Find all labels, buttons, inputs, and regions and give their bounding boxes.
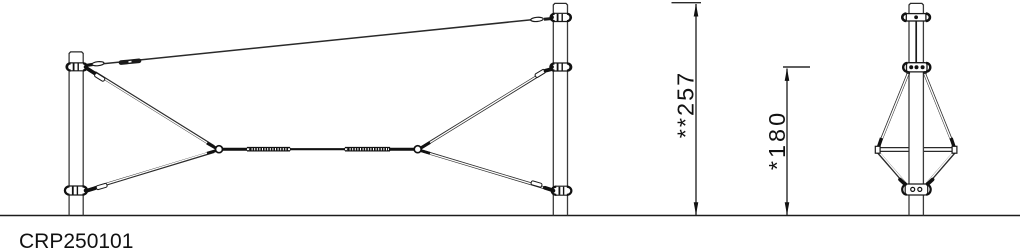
middle rope left segment	[223, 148, 249, 151]
rope B lower-left diagonal	[86, 151, 216, 191]
top cable right eye connector	[531, 17, 551, 22]
rope D lower-right diagonal	[421, 151, 553, 191]
left node ring	[216, 146, 223, 153]
svg-text:**257: **257	[673, 71, 699, 139]
rope C upper-right diagonal	[421, 69, 553, 148]
top cable turnbuckle	[121, 61, 139, 63]
diamond rope upper-right	[924, 73, 954, 148]
diamond rope lower-left	[878, 153, 907, 187]
left post bottom collar	[65, 186, 88, 195]
svg-text:CRP250101: CRP250101	[19, 230, 133, 251]
side view bottom collar	[902, 184, 930, 195]
right tip connector	[952, 146, 957, 153]
side view middle collar	[903, 63, 930, 75]
middle rope center segment	[290, 148, 345, 150]
diamond rope lower-right	[926, 153, 955, 187]
side view top collar	[902, 14, 930, 21]
rope A upper-left diagonal	[86, 68, 216, 148]
top cable wire	[88, 20, 533, 66]
right post bottom collar	[551, 186, 571, 195]
right post middle collar	[550, 63, 572, 71]
dimension line *180	[764, 67, 810, 215]
middle rope wrapped segment 2	[345, 148, 391, 151]
right node ring	[414, 146, 421, 153]
diamond rope upper-left	[878, 73, 908, 148]
left post P1	[69, 52, 83, 216]
right post P2	[553, 3, 567, 215]
side view post P3	[909, 3, 923, 215]
middle rope wrapped segment 1	[247, 148, 291, 151]
middle rope right segment	[389, 148, 414, 151]
left tip connector	[875, 146, 880, 153]
rope horizontal end-on	[880, 148, 953, 152]
right post top collar	[550, 13, 572, 21]
dimension line **257	[672, 3, 702, 215]
ground line	[0, 215, 1020, 217]
side view cable end-on	[915, 20, 917, 64]
left post top collar	[66, 63, 88, 71]
svg-text:*180: *180	[764, 110, 790, 170]
top cable left eye connector	[87, 61, 104, 66]
